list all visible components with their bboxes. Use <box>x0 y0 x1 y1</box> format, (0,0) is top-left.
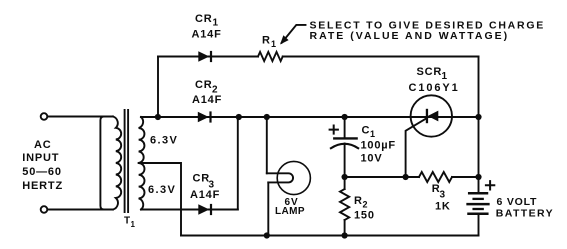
svg-text:1: 1 <box>213 18 219 29</box>
svg-text:RATE (VALUE AND WATTAGE): RATE (VALUE AND WATTAGE) <box>310 30 510 42</box>
svg-text:1: 1 <box>370 129 376 139</box>
svg-text:100µF: 100µF <box>361 140 396 152</box>
svg-text:CR: CR <box>193 172 211 184</box>
svg-text:SCR: SCR <box>417 66 443 78</box>
svg-text:CR: CR <box>195 13 213 25</box>
svg-text:A14F: A14F <box>190 189 220 201</box>
svg-text:50—60: 50—60 <box>22 166 61 178</box>
svg-text:R: R <box>262 35 271 47</box>
svg-text:HERTZ: HERTZ <box>22 180 63 192</box>
svg-text:3: 3 <box>440 190 446 201</box>
svg-text:C106Y1: C106Y1 <box>409 82 460 94</box>
svg-text:6.3V: 6.3V <box>150 135 178 147</box>
svg-text:A14F: A14F <box>192 29 222 41</box>
svg-text:1K: 1K <box>435 200 451 212</box>
svg-text:AC: AC <box>34 139 52 151</box>
svg-text:150: 150 <box>354 209 375 221</box>
svg-text:10V: 10V <box>361 153 383 165</box>
svg-text:6.3V: 6.3V <box>148 184 176 196</box>
svg-text:CR: CR <box>195 79 213 91</box>
svg-text:1: 1 <box>131 220 136 229</box>
svg-text:6 VOLT: 6 VOLT <box>497 196 538 208</box>
svg-text:INPUT: INPUT <box>22 152 59 164</box>
svg-text:R: R <box>354 195 363 207</box>
svg-text:LAMP: LAMP <box>275 206 305 217</box>
svg-text:A14F: A14F <box>192 94 222 106</box>
svg-text:2: 2 <box>363 200 369 210</box>
svg-text:BATTERY: BATTERY <box>496 208 554 220</box>
svg-text:1: 1 <box>442 71 448 82</box>
svg-text:C: C <box>362 125 371 137</box>
svg-text:1: 1 <box>271 39 277 49</box>
